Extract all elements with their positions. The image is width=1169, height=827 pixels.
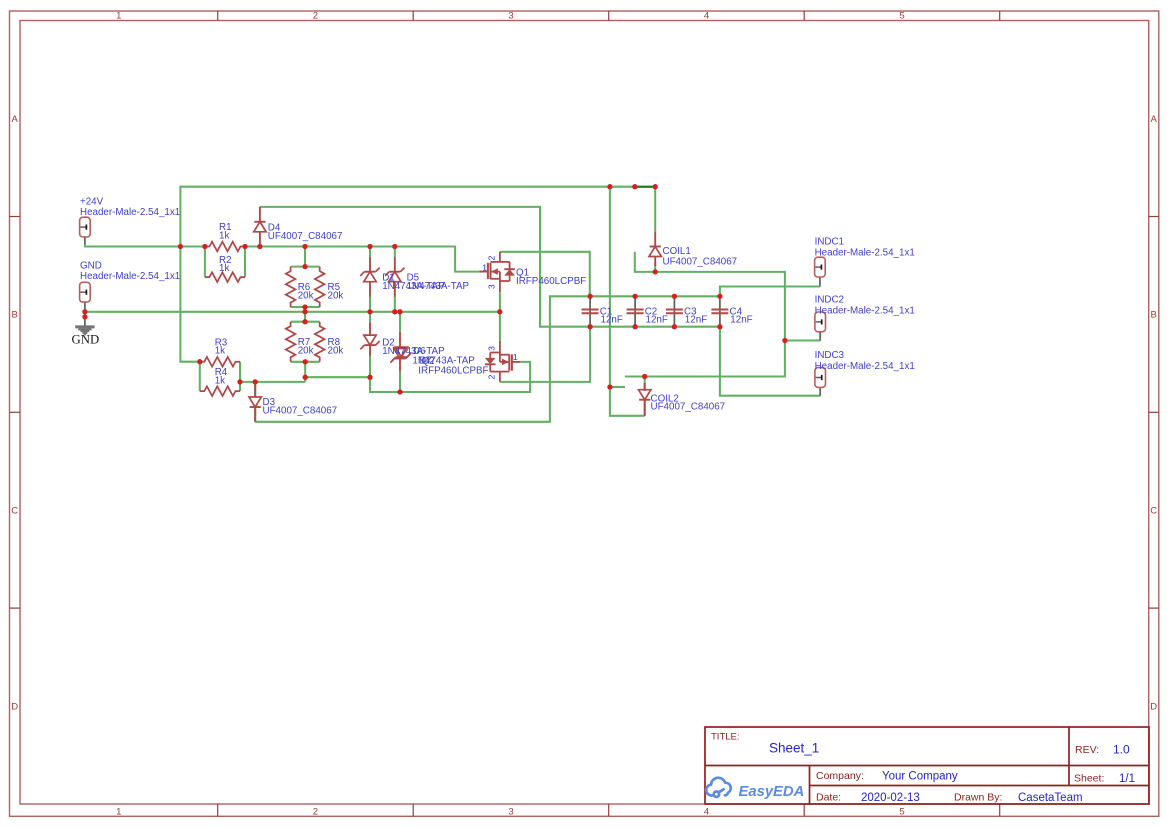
svg-text:1N4743A-TAP: 1N4743A-TAP <box>407 281 470 292</box>
svg-text:1k: 1k <box>219 263 229 274</box>
svg-text:+24V: +24V <box>80 197 104 208</box>
svg-text:Drawn By:: Drawn By: <box>954 792 1002 804</box>
svg-text:Header-Male-2.54_1x1: Header-Male-2.54_1x1 <box>80 207 180 218</box>
svg-text:REV:: REV: <box>1075 744 1099 756</box>
svg-text:B: B <box>12 310 18 321</box>
svg-text:1: 1 <box>513 352 518 362</box>
svg-text:20k: 20k <box>298 345 314 356</box>
svg-text:Header-Male-2.54_1x1: Header-Male-2.54_1x1 <box>80 271 180 282</box>
svg-text:20k: 20k <box>328 345 344 356</box>
svg-text:CasetaTeam: CasetaTeam <box>1018 792 1083 804</box>
svg-text:12nF: 12nF <box>730 315 752 326</box>
svg-text:12nF: 12nF <box>601 315 623 326</box>
svg-text:Sheet:: Sheet: <box>1074 773 1104 785</box>
svg-text:1k: 1k <box>215 346 225 357</box>
svg-text:TITLE:: TITLE: <box>711 732 740 743</box>
svg-text:C: C <box>11 506 18 517</box>
svg-text:D: D <box>11 701 18 712</box>
svg-text:2: 2 <box>487 374 497 379</box>
svg-text:GND: GND <box>72 332 100 346</box>
svg-text:5: 5 <box>899 11 904 22</box>
svg-text:12nF: 12nF <box>685 315 707 326</box>
svg-text:Date:: Date: <box>816 792 841 804</box>
svg-text:20k: 20k <box>298 290 314 301</box>
svg-text:INDC3: INDC3 <box>815 350 845 361</box>
svg-text:Company:: Company: <box>816 770 864 782</box>
svg-text:2: 2 <box>487 255 497 260</box>
svg-text:4: 4 <box>704 806 709 817</box>
svg-text:Sheet_1: Sheet_1 <box>769 741 819 756</box>
svg-text:COIL1: COIL1 <box>663 246 691 257</box>
svg-text:B: B <box>1151 310 1157 321</box>
svg-text:1k: 1k <box>219 230 229 241</box>
svg-text:UF4007_C84067: UF4007_C84067 <box>263 406 338 417</box>
svg-text:INDC2: INDC2 <box>815 295 844 306</box>
svg-text:GND: GND <box>80 260 102 271</box>
svg-text:1k: 1k <box>215 375 225 386</box>
svg-text:UF4007_C84067: UF4007_C84067 <box>268 231 343 242</box>
svg-text:UF4007_C84067: UF4007_C84067 <box>651 401 726 412</box>
svg-text:1: 1 <box>116 806 121 817</box>
svg-text:C: C <box>1150 506 1157 517</box>
svg-text:D: D <box>1150 701 1157 712</box>
svg-text:IRFP460LCPBF: IRFP460LCPBF <box>516 276 586 287</box>
svg-text:3: 3 <box>487 284 497 289</box>
svg-text:1: 1 <box>116 11 121 22</box>
svg-text:4: 4 <box>704 11 709 22</box>
svg-text:1: 1 <box>482 263 487 273</box>
svg-text:Header-Male-2.54_1x1: Header-Male-2.54_1x1 <box>815 361 915 372</box>
svg-text:1/1: 1/1 <box>1119 773 1135 785</box>
svg-text:20k: 20k <box>328 290 344 301</box>
svg-text:1.0: 1.0 <box>1113 742 1130 756</box>
svg-text:IRFP460LCPBF: IRFP460LCPBF <box>418 366 488 377</box>
svg-text:2: 2 <box>313 806 318 817</box>
svg-text:2020-02-13: 2020-02-13 <box>861 792 920 804</box>
svg-text:12nF: 12nF <box>646 315 668 326</box>
svg-text:Header-Male-2.54_1x1: Header-Male-2.54_1x1 <box>815 247 915 258</box>
svg-text:A: A <box>12 114 19 125</box>
svg-text:2: 2 <box>313 11 318 22</box>
svg-text:3: 3 <box>508 806 513 817</box>
svg-text:Header-Male-2.54_1x1: Header-Male-2.54_1x1 <box>815 305 915 316</box>
svg-text:INDC1: INDC1 <box>815 237 844 248</box>
svg-text:EasyEDA: EasyEDA <box>739 784 805 800</box>
svg-text:Your Company: Your Company <box>882 770 958 782</box>
svg-text:3: 3 <box>487 346 497 351</box>
svg-text:3: 3 <box>508 11 513 22</box>
svg-text:UF4007_C84067: UF4007_C84067 <box>663 256 738 267</box>
svg-text:A: A <box>1151 114 1158 125</box>
svg-text:5: 5 <box>899 806 904 817</box>
